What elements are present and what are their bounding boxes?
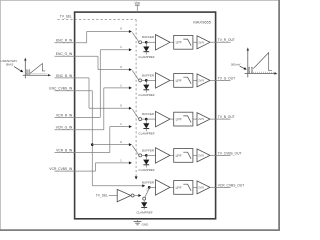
wire VDD stub [136, 5, 138, 12]
wire output ch2 [210, 79, 231, 81]
annotation arrow to baseline [14, 67, 21, 71]
wire node to buffer ch5 [149, 186, 155, 188]
wire buffer to LPF ch5 [170, 186, 174, 188]
wire VCR_B_IN to switch contact [110, 126, 129, 128]
svg-text:1: 1 [120, 122, 122, 126]
graph output waveform axes [247, 50, 249, 77]
wire buffer to LPF ch1 [170, 41, 174, 43]
node clamp junction ch5 [148, 186, 151, 189]
switch SW1 pole [139, 41, 142, 44]
op-amp buffer A5a [156, 180, 171, 195]
wire ENC_R_IN pin stub [55, 42, 87, 44]
wire VCR_G_IN pin stub [55, 129, 104, 131]
svg-text:2V/V: 2V/V [198, 79, 204, 83]
wire VCR_G_IN vertical jog [103, 88, 105, 130]
wire ENC_G_IN pin stub [55, 55, 99, 57]
filter LPF5 [174, 181, 193, 195]
svg-text:1: 1 [120, 45, 122, 49]
diode clamp D2 [145, 82, 147, 85]
wire VCR_R_IN vertical jog [99, 50, 101, 118]
wire buffer to LPF ch2 [170, 79, 174, 81]
op-amp gain 2V/V A4b [197, 149, 210, 162]
ground symbol [134, 221, 142, 223]
diode clamp D3 [145, 120, 147, 123]
svg-text:300mV: 300mV [231, 63, 242, 67]
svg-text:VCR_B_IN: VCR_B_IN [56, 149, 73, 153]
svg-text:0: 0 [120, 65, 122, 69]
wire VCR_CVBS_IN vertical jog [95, 163, 97, 171]
switch SW4 lever [132, 146, 138, 155]
graph input waveform axes [24, 60, 26, 78]
power VDD bar [135, 4, 140, 6]
switch SW2 lever [132, 71, 138, 80]
wire VCR_CVBS_IN pin stub [55, 170, 96, 172]
filter LPF1 [174, 35, 193, 49]
node clamp junction ch2 [145, 79, 148, 82]
svg-text:TV_CVBS_OUT: TV_CVBS_OUT [218, 151, 242, 155]
op-amp gain 2V/V A2b [197, 74, 210, 87]
svg-text:BIAS: BIAS [6, 63, 13, 67]
diode clamp D4 [145, 157, 147, 160]
svg-text:BUFFER: BUFFER [142, 180, 155, 184]
switch SW1 lever [132, 32, 138, 41]
wire VCR_R_IN pin stub [55, 116, 101, 118]
wire output ch4 [210, 154, 231, 156]
wire inverter output [134, 195, 138, 197]
wire buffer to LPF ch3 [170, 118, 174, 120]
wire ENC_CVBS_IN branch to SW4 contact 0 [92, 144, 129, 146]
svg-text:0: 0 [120, 104, 122, 108]
switch SW3 lever [132, 109, 138, 118]
wire node to buffer ch4 [146, 154, 155, 156]
op-amp gain 2V/V A1b [197, 36, 210, 49]
svg-text:VCR_CVBS_IN: VCR_CVBS_IN [49, 167, 73, 171]
wire VCR_B_IN vertical jog [109, 127, 111, 153]
wire TV_SEL dashed horizontal [58, 19, 137, 21]
wire LPF to amp ch5 [193, 186, 197, 188]
wire VCR_R_IN to switch contact [100, 49, 129, 51]
graph input ramp [30, 64, 45, 74]
svg-text:BUFFER: BUFFER [142, 35, 155, 39]
diode clamp D1 [145, 44, 147, 47]
svg-text:TV_SEL: TV_SEL [60, 14, 72, 18]
svg-text:2V/V: 2V/V [198, 154, 204, 158]
wire VCR_B_IN pin stub [55, 152, 110, 154]
svg-text:LPF: LPF [176, 186, 182, 190]
filter LPF4 [174, 149, 193, 163]
wire ENC_R_IN vertical jog [86, 32, 88, 43]
svg-text:0: 0 [120, 140, 122, 144]
wire ENC_G_IN vertical jog [97, 56, 99, 69]
wire ENC_B_IN to switch contact [89, 107, 129, 109]
svg-text:2V/V: 2V/V [198, 40, 204, 44]
svg-text:CLAMPREF: CLAMPREF [138, 132, 155, 136]
wire LPF to amp ch2 [193, 79, 197, 81]
svg-text:CLAMPREF: CLAMPREF [138, 55, 155, 59]
svg-text:TV_R_OUT: TV_R_OUT [218, 38, 235, 42]
wire pole to node ch4 [142, 154, 147, 156]
svg-text:LPF: LPF [176, 79, 182, 83]
svg-text:ENC_G_IN: ENC_G_IN [56, 52, 73, 56]
wire LPF to amp ch1 [193, 41, 197, 43]
annotation arrow to sync tip [240, 66, 245, 68]
wire node to buffer ch3 [146, 118, 155, 120]
switch SW2 pole [139, 79, 142, 82]
wire ENC_B_IN pin stub [55, 77, 90, 79]
svg-text:LPF: LPF [176, 118, 182, 122]
svg-text:TV_B_OUT: TV_B_OUT [218, 115, 235, 119]
wire ENC_R_IN to switch contact [87, 31, 130, 33]
wire pole to node ch3 [142, 118, 147, 120]
wire output ch1 [210, 41, 231, 43]
svg-text:2V/V: 2V/V [198, 117, 204, 121]
svg-text:CLAMPREF: CLAMPREF [138, 93, 155, 97]
graph input dotted baseline [27, 73, 48, 75]
wire output ch5 [210, 186, 231, 188]
op-amp gain 2V/V A5b [197, 181, 210, 194]
TV_SEL control arrow into switch SW5 [135, 176, 138, 179]
svg-text:VCR_R_IN: VCR_R_IN [56, 113, 73, 117]
svg-text:LPF: LPF [176, 154, 182, 158]
wire ENC_CVBS_IN pin stub [55, 90, 93, 92]
wire node to buffer ch1 [146, 41, 155, 43]
svg-text:TV_SEL: TV_SEL [96, 194, 108, 198]
svg-text:CLAMPREF: CLAMPREF [136, 210, 153, 214]
node clamp junction ch3 [145, 118, 148, 121]
svg-text:ENC_CVBS_IN: ENC_CVBS_IN [49, 87, 73, 91]
svg-text:ENC_B_IN: ENC_B_IN [56, 74, 73, 78]
wire output ch3 [210, 118, 231, 120]
svg-text:0: 0 [120, 27, 122, 31]
wire ENC_G_IN to switch contact [98, 69, 129, 71]
filter LPF2 [174, 74, 193, 88]
svg-text:2V/V: 2V/V [198, 186, 204, 190]
op-amp gain 2V/V A3b [197, 113, 210, 126]
graph output dotted baseline [249, 71, 276, 73]
wire VCR_CVBS_IN to switch contact [96, 162, 130, 164]
svg-text:1: 1 [120, 83, 122, 87]
switch SW5 pole [143, 197, 146, 200]
switch SW3 pole [139, 118, 142, 121]
graph output sync pulses [248, 67, 251, 73]
inverter U2 [117, 189, 131, 201]
svg-text:BUFFER: BUFFER [142, 73, 155, 77]
svg-text:BUFFER: BUFFER [142, 112, 155, 116]
wire LPF to amp ch3 [193, 118, 197, 120]
svg-text:TV_G_OUT: TV_G_OUT [218, 76, 235, 80]
wire LPF to amp ch4 [193, 154, 197, 156]
svg-text:CLAMPREF: CLAMPREF [138, 168, 155, 172]
switch SW4 pole [139, 154, 142, 157]
wire pole to node ch2 [142, 79, 147, 81]
svg-text:BUFFER: BUFFER [142, 148, 155, 152]
graph output ramp [253, 53, 272, 71]
wire ENC_B_IN vertical jog [88, 78, 90, 108]
svg-text:LPF: LPF [176, 41, 182, 45]
wire TV_SEL to inverter [109, 195, 117, 197]
wire buffer to LPF ch4 [170, 154, 174, 156]
node junction ENC_CVBS_IN to SW4 [91, 143, 94, 146]
wire GND stub [137, 219, 139, 222]
svg-text:1: 1 [120, 158, 122, 162]
node clamp junction ch1 [145, 41, 148, 44]
IC body MAX9655 [75, 12, 216, 219]
filter LPF3 [174, 112, 193, 126]
svg-text:MAX9655: MAX9655 [193, 20, 211, 25]
wire pole to node ch1 [142, 41, 147, 43]
svg-text:VCR_G_IN: VCR_G_IN [56, 126, 73, 130]
op-amp buffer A4a [156, 148, 171, 163]
wire VCR_G_IN to switch contact [104, 87, 129, 89]
wire TV_SEL dashed vertical [135, 20, 137, 177]
diode clamp D5 [143, 200, 145, 202]
graph input sync pulses [25, 70, 28, 75]
svg-text:ENC_R_IN: ENC_R_IN [56, 39, 73, 43]
inverter control arrow to SW5 [138, 194, 141, 197]
op-amp buffer A2a [156, 73, 171, 88]
svg-text:VCR_CVBS_OUT: VCR_CVBS_OUT [218, 183, 245, 187]
wire ENC_CVBS_IN vertical run [91, 91, 93, 186]
switch SW5 lever [145, 189, 149, 198]
svg-text:GND: GND [142, 222, 150, 226]
op-amp buffer A1a [156, 35, 171, 50]
node clamp junction ch4 [145, 154, 148, 157]
op-amp buffer A3a [156, 111, 171, 126]
wire ENC_CVBS_IN branch to SW5 contact 0 [92, 185, 142, 187]
wire node to buffer ch2 [146, 79, 155, 81]
